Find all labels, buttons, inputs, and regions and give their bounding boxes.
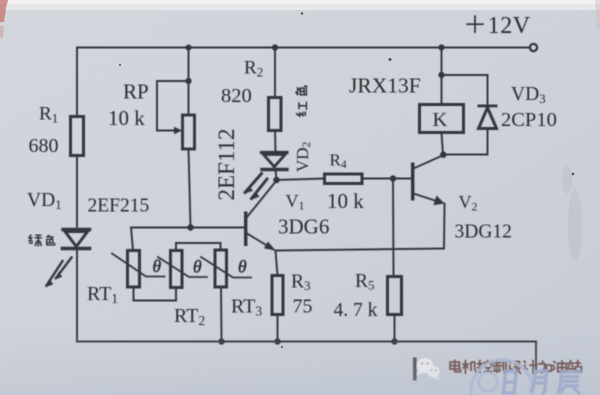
wire RP to RT net [189,149,191,228]
wire RP wiper loop [157,81,189,131]
node VD2/R4/V1 collector [273,177,279,183]
node rail relay [438,44,444,50]
wire bottom rail [77,342,536,373]
wire RP drop from rail [188,48,190,116]
wire relay bottom [442,133,444,155]
wire V1 emitter node to R3 [276,251,278,276]
watermark text dianji kongzhi sheji jiayouzhan [450,360,581,374]
wire emitter bus [276,249,445,251]
wire RT2-RT3 top link [176,243,221,251]
wire left rail mid [76,156,78,227]
wire V1 base (net A) [131,227,244,229]
node rail RP [186,45,192,51]
resistor R2 [269,98,282,131]
node R5 rail [391,338,397,344]
wire R5 feed [392,179,395,277]
wire V2 emitter down [443,204,446,249]
wire VD3 top link [442,75,488,105]
LED VD1 [45,230,89,288]
RT3 theta slash [201,257,251,278]
watermark seal text ri yue chen [503,371,581,393]
node RP top [185,78,191,84]
RT1 theta slash [112,254,165,277]
node RP/RT net [187,224,193,230]
wire VD3 bottom link [443,129,488,155]
wire top rail +12V [77,47,530,49]
wire RT1 top [131,228,133,251]
diode VD3 2CP10 [478,105,498,129]
wire RT1-RT2 bottom link [134,287,177,301]
scan smudges [562,166,582,261]
node relay/VD3 top [438,72,444,78]
watermark seal circle [471,360,533,395]
wire left rail upper [76,48,78,118]
terminal +12V [530,44,537,51]
thermistor RT3 [215,250,227,287]
thermistor RT1 [128,251,140,288]
node relay/VD3/V2 collector [440,152,446,158]
resistor R5 [388,277,402,315]
node R4/R5/V2 base [390,175,396,181]
label VD1 green text [29,235,55,246]
RP wiper arrow [174,127,182,134]
wire left rail lower [76,249,78,342]
relay K JRX13F [420,105,464,133]
label VD2 red text vertical [296,86,307,116]
potentiometer RP [183,115,195,149]
wire relay drop [441,48,443,105]
transistor V1 3DG6 [244,181,277,251]
thermistor RT2 [171,251,183,288]
node rail R2 [272,44,278,50]
watermark wechat icon [413,358,440,381]
wire R4 to V2 base [362,178,412,180]
node R3 rail [274,338,280,344]
wire R2 drop [274,48,276,98]
RT2 theta slash [158,257,207,277]
resistor R3 [272,276,283,315]
wire VD2 to node [276,170,277,181]
transistor V2 3DG12 [411,155,445,205]
wire RT3 to rail [220,287,223,342]
node RT3 rail [218,338,224,344]
resistor R1 [71,117,84,156]
scan noise [0,0,1,1]
resistor R4 [325,174,363,184]
pink scan edge top-left [0,0,8,22]
wire R2 to VD2 [274,131,277,153]
LED VD2 red [245,153,287,200]
wire R5 to rail [394,315,396,342]
wire node to R4 [277,179,325,181]
wire R3 to rail [277,315,279,342]
